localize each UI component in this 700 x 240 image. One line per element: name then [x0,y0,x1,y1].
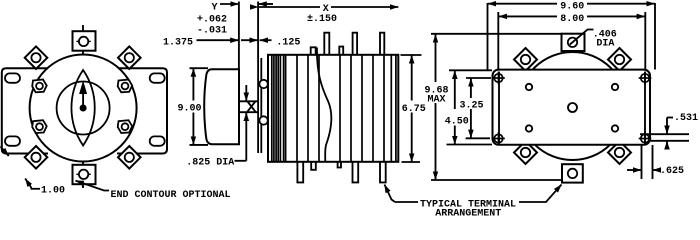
svg-text:6.75: 6.75 [402,104,426,115]
rear lower-right diamond [608,141,631,164]
bottom terminal 5 (long) [380,162,386,183]
left mounting flange [2,68,48,153]
top terminal tab [73,31,96,51]
extension line from panel front [257,2,259,59]
.531 extension lines [640,133,689,135]
hex nut lower-right [118,120,133,133]
svg-text:.125: .125 [276,37,300,48]
svg-text:+.062: +.062 [197,15,227,26]
rear top terminal tab [562,34,585,51]
right flange upper slot [150,73,165,82]
body laminations [272,55,396,162]
9.68 MAX extension lines [431,33,563,35]
panel nut (lower, side view) [259,116,267,124]
top tab hole [79,37,88,46]
front view outer circle (body) [30,55,137,162]
svg-text:3.25: 3.25 [460,101,484,112]
top terminal 2 (tall) [324,33,329,55]
.406 DIA leader [570,30,594,45]
center dot [80,105,87,112]
shaft flat (lens shape) [71,70,94,146]
svg-text:±.150: ±.150 [307,14,337,25]
9.60 / 8.00 extension lines [487,3,489,70]
svg-text:9.00: 9.00 [178,104,202,115]
4.50 dimension line [454,71,456,109]
4.50 extension line (plate top/bottom) [449,69,492,71]
svg-text:END CONTOUR OPTIONAL: END CONTOUR OPTIONAL [111,190,231,201]
TYPICAL TERMINAL ARRANGEMENT right leader [519,185,562,203]
END CONTOUR OPTIONAL leader [76,181,110,191]
plate right hole centerline [644,72,646,145]
rear lower-left diamond [514,141,537,164]
rear top tab hole [568,38,577,47]
upper-right mounting diamond [118,46,141,69]
knob end contour outline [204,69,239,144]
3.25 dimension line [470,78,472,98]
6.75 dimension line with arrows [411,55,413,100]
svg-text:Y: Y [212,3,218,14]
8.00 dimension line [499,15,557,17]
bottom terminal tab [73,165,96,184]
svg-text:8.00: 8.00 [560,14,584,25]
svg-text:-.031: -.031 [197,26,227,37]
.625 arrows [627,169,641,171]
9.60 dimension line [488,3,557,5]
svg-text:9.60: 9.60 [560,2,584,13]
top terminal 4 (tall) [353,33,358,55]
switch body outline [268,55,398,162]
hex nut upper-right [118,80,133,93]
svg-text:.825 DIA: .825 DIA [186,158,234,169]
1.00 dimension upper leader arrow [1,147,9,157]
bottom terminal 1 (long) [297,162,303,183]
panel nut (upper, side view) [259,80,267,88]
svg-text:4.50: 4.50 [445,117,469,128]
left flange upper slot [5,73,20,82]
bottom terminal 2 (short) [311,162,316,170]
1.00 dimension lower leader arrow [25,179,31,189]
9.68 MAX dimension line with arrows [435,34,437,82]
top terminal 5 (tall) [380,33,384,55]
extension line from knob face [238,2,240,69]
.825 DIA dimension arrows [245,85,247,101]
svg-text:DIA: DIA [596,38,614,49]
rear view outer circle [519,52,627,160]
X dimension line [258,6,320,8]
plate corner hole TL [492,72,505,85]
rear upper-left diamond [514,48,537,71]
plate center hole [568,103,577,112]
bottom terminal 3 (short) [338,162,341,168]
lower-left mounting diamond [25,146,48,169]
plate corner hole BL [492,132,505,145]
9.00 dimension line with arrows [192,68,194,100]
svg-text:ARRANGEMENT: ARRANGEMENT [435,209,501,218]
rear mounting plate [493,70,651,145]
shaft cross mark [247,102,255,113]
rear bottom tab hole [568,169,577,178]
rear bottom terminal tab [562,164,583,182]
9.00 dimension extension lines [190,67,209,69]
top terminal 3 (short) [339,47,343,55]
plate left hole centerline [498,72,500,145]
TYPICAL TERMINAL ARRANGEMENT left leader [385,185,396,203]
left flange lower slot [5,136,20,145]
.625 extension lines below plate [641,145,643,179]
hex nut upper-left [32,80,47,93]
S break curve [317,48,331,162]
inner circle (shaft boss) [57,82,110,135]
lower-right mounting diamond [118,146,141,169]
bottom tab hole [79,170,88,179]
plate corner hole TR [639,72,652,85]
plate inner holes [526,84,532,90]
shaft between knob and panel [240,100,259,102]
bottom terminal 4 (long) [353,162,359,183]
rear upper-right diamond [608,48,631,71]
svg-text:MAX: MAX [428,95,446,106]
right flange lower slot [150,136,165,145]
.531 arrows [666,118,668,134]
6.75 dimension extension lines [401,54,422,56]
right mounting flange [117,68,167,153]
plate corner hole BR [639,132,652,145]
front view vertical centerline [82,25,84,188]
pointer arrow on shaft [79,81,87,95]
.125 dimension [260,39,272,41]
svg-text:1.375: 1.375 [163,37,193,48]
mounting panel (double line) [257,58,259,153]
svg-text:.625: .625 [660,166,684,177]
3.25 extension lines (hole rows) [466,77,491,79]
top terminal 1 (short) [311,47,316,55]
svg-text:.531: .531 [674,113,698,124]
upper-left mounting diamond [25,46,48,69]
hex nut lower-left [32,120,47,133]
svg-text:1.00: 1.00 [41,186,65,197]
